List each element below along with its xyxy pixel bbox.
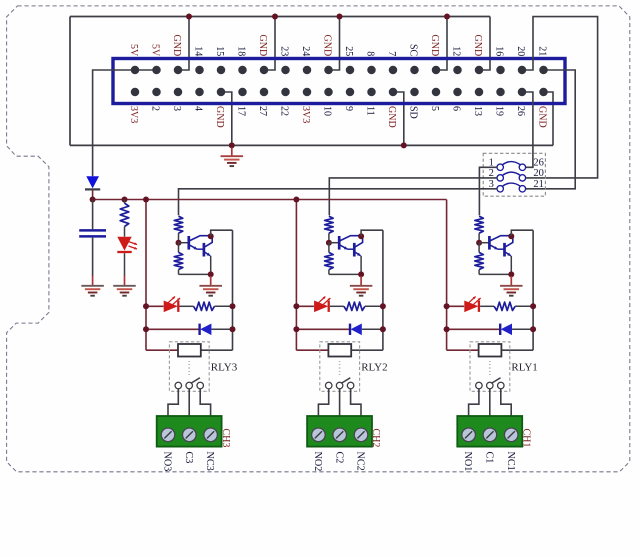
wire emitter Q1 [510,256,512,275]
svg-text:CH2: CH2 [370,429,381,448]
svg-text:RLY1: RLY1 [511,362,537,374]
svg-text:C2: C2 [333,452,344,464]
node base Q2 [326,240,332,246]
svg-text:20: 20 [533,168,544,179]
pin 1 [131,66,140,75]
junction rail resistor RLY1 [530,303,536,309]
wire GND bus top [70,16,490,18]
wire contact NC3 [200,389,210,417]
terminal screw CH3 [183,428,197,442]
pin 40 [539,88,548,97]
jumper pin 2 left [497,175,503,181]
svg-text:GND: GND [171,35,182,57]
terminal block CH3 [157,416,222,447]
pin 12 [238,88,247,97]
pin 32 [453,88,462,97]
wire flyback D3 to rail [211,328,232,330]
pin 34 [475,88,484,97]
svg-text:21: 21 [536,46,547,56]
svg-text:5V: 5V [128,44,139,57]
resistor R8 power LED [124,200,126,204]
terminal screw CH1 [483,428,497,442]
pin 11 [238,66,247,75]
wire rail to flyback D1 [447,328,500,330]
junction rail flyback left RLY2 [293,326,299,332]
relay RLY2 actuator link [339,361,341,375]
svg-text:21: 21 [533,179,544,190]
svg-text:NO1: NO1 [462,452,473,472]
wire emitter Q3 [210,256,212,275]
svg-text:4: 4 [192,106,203,111]
svg-text:25: 25 [343,46,354,56]
wire GND bus bottom [70,144,553,146]
relay RLY2 outline [320,342,360,392]
LED D5 power indicator [117,237,131,251]
wire flyback D1 to rail [512,328,533,330]
pin 4 [152,88,161,97]
junction bus rail RLY3 [143,197,149,203]
pin 5 [174,66,183,75]
capacitor C1 [92,200,94,230]
pin 2 [131,88,140,97]
pin 21 [346,66,355,75]
terminal block CH2 [307,416,372,447]
junction bus rail RLY2 [293,197,299,203]
svg-text:CH3: CH3 [220,429,231,448]
wire rail left RLY1 [446,200,448,351]
relay RLY3 coil [178,344,201,357]
jumper shunt row 1 [502,162,520,165]
svg-text:GND: GND [429,35,440,57]
wire flyback D2 to rail [362,328,383,330]
wire rail right RLY2 [382,230,384,350]
pin 24 [367,88,376,97]
resistor base lower Q1 [478,243,480,253]
svg-text:20: 20 [515,46,526,56]
wire resistor R1 to rail [515,305,533,307]
ground emitter Q2 [360,276,362,286]
transistor Q3 darlington [179,242,189,244]
svg-text:3V3: 3V3 [128,106,139,123]
wire contact C1 [489,389,491,417]
diode D2 flyback [349,324,351,335]
svg-text:NO2: NO2 [312,452,323,472]
wire jumper pin2 to Q2 base resistor [329,178,497,215]
pin 30 [432,88,441,97]
terminal screw CH1 [462,428,476,442]
svg-text:GND: GND [386,106,397,128]
wire GND pin top col7 to bus [264,17,275,71]
node emitter Q1 [508,271,514,277]
junction rail LED RLY2 [293,303,299,309]
wire emitter return Q1 [479,273,511,275]
pin 31 [453,66,462,75]
wire rail to flyback D3 [146,328,199,330]
pin 15 [281,66,290,75]
pin 37 [518,66,527,75]
jumper block J2 [483,153,545,196]
pin 36 [496,88,505,97]
wire collector Q2 to rail [361,230,383,236]
terminal screw CH1 [504,428,518,442]
terminal screw CH3 [204,428,218,442]
pin 14 [260,88,269,97]
svg-text:15: 15 [214,46,225,56]
junction rail flyback left RLY1 [444,326,450,332]
wire pin20 to jumper [522,17,598,178]
resistor R3 series [194,302,215,310]
wire rail to LED D2 [296,305,314,307]
svg-text:GND: GND [214,106,225,128]
relay RLY2 coil [328,344,351,357]
junction rail resistor RLY3 [230,303,236,309]
junction bus at C1 [122,197,128,203]
svg-text:3: 3 [171,106,182,111]
terminal screw CH2 [333,428,347,442]
svg-text:NO3: NO3 [162,452,173,472]
relay RLY1 contacts [476,382,483,389]
LED D3 indicator [164,301,178,313]
svg-text:7: 7 [386,51,397,56]
wire diode to bus [92,191,94,200]
svg-text:18: 18 [235,46,246,56]
wire GND pin bottom col13 to bus [393,92,404,145]
node base Q1 [476,240,482,246]
relay RLY1 coil [479,344,502,357]
diode D3 flyback [198,324,200,335]
junction on GND bus top [272,14,278,20]
svg-text:GND: GND [536,106,547,128]
resistor base lower Q2 [328,243,330,253]
resistor R2 series [344,302,365,310]
relay RLY1 actuator link [489,361,491,375]
svg-text:GND: GND [257,35,268,57]
wire GND pin bottom col5 to bus [221,92,232,145]
svg-text:GND: GND [321,35,332,57]
relay RLY3 outline [169,342,209,392]
pin 20 [324,88,333,97]
terminal screw CH2 [312,428,326,442]
wire GND pin bottom col20 to bus [544,92,554,145]
wire emitter return Q3 [179,273,211,275]
svg-text:2: 2 [149,106,160,111]
wire GND pin top col15 to bus [436,17,447,71]
wire rail to LED D1 [447,305,465,307]
svg-text:C1: C1 [484,452,495,464]
svg-text:8: 8 [364,51,375,56]
junction rail LED RLY1 [444,303,450,309]
svg-text:SC: SC [407,44,418,57]
svg-text:RLY2: RLY2 [361,362,387,374]
svg-text:26: 26 [533,158,544,169]
wire GND bus left [69,17,71,146]
node emitter Q2 [358,271,364,277]
svg-text:NC3: NC3 [204,452,215,471]
jumper shunt row 2 [502,172,520,175]
jumper pin 21 right [519,186,525,192]
wire GND pin top col10 to bus [329,17,340,71]
pin 8 [195,88,204,97]
wire resistor R3 to rail [215,305,233,307]
wire LED to resistor R3 [180,305,194,307]
svg-text:SD: SD [407,106,418,119]
transistor Q2 darlington [329,242,339,244]
resistor R1 series [494,302,515,310]
pin 6 [174,88,183,97]
wire rail left RLY2 [295,200,297,351]
wire contact NO3 [168,389,178,417]
ground emitter Q3 [210,276,212,286]
svg-text:10: 10 [321,106,332,116]
wire jumper pin1 to Q1 base resistor [479,167,497,215]
node base Q3 [176,240,182,246]
ground emitter Q1 [510,276,512,286]
svg-text:5: 5 [429,106,440,111]
svg-text:19: 19 [493,106,504,116]
LED D2 indicator [314,301,328,313]
pin 17 [303,66,312,75]
pin 29 [432,66,441,75]
connector J1 40-pin header [113,59,565,104]
resistor base upper Q3 [174,216,183,233]
wire pin26 to jumper [522,92,533,167]
pin 23 [367,66,376,75]
svg-text:27: 27 [257,106,268,116]
terminal block CH1 [457,416,522,447]
junction on GND bus top [186,14,192,20]
ground D5 [124,276,126,286]
LED D1 indicator [464,301,478,313]
relay RLY3 contacts [175,382,182,389]
junction rail flyback right RLY2 [380,326,386,332]
resistor base upper Q1 [475,216,484,233]
wire pin21 to jumper [526,70,575,189]
svg-text:22: 22 [278,106,289,116]
svg-text:NC2: NC2 [355,452,366,471]
wire contact NC1 [501,389,511,417]
pin 28 [410,88,419,97]
junction on GND bus bottom [229,142,235,148]
wire contact C3 [188,389,190,417]
node collector Q2 [358,233,364,239]
node collector Q3 [208,233,214,239]
wire rail to coil RLY2 [296,349,328,351]
svg-text:17: 17 [235,106,246,116]
pin 3 [152,66,161,75]
junction rail LED RLY3 [143,303,149,309]
junction rail flyback left RLY3 [143,326,149,332]
junction rail flyback right RLY1 [530,326,536,332]
pin 33 [475,66,484,75]
node 5V bus [93,199,447,201]
wire contact NC2 [351,389,361,417]
terminal screw CH2 [354,428,368,442]
diode D1 flyback [499,324,501,335]
wire emitter return Q2 [329,273,361,275]
wire jumper pin3 to Q3 base resistor [179,189,498,216]
jumper pin 1 left [497,164,503,170]
diode D4 reverse protection [86,176,99,188]
wire collector Q1 to rail [511,230,533,236]
pin 38 [518,88,527,97]
jumper shunt row 3 [502,183,520,186]
wire rail right RLY1 [532,230,534,350]
pin 7 [195,66,204,75]
svg-text:14: 14 [192,46,203,56]
svg-text:24: 24 [300,46,311,56]
terminal screw CH3 [161,428,175,442]
svg-text:23: 23 [278,46,289,56]
ground C1 [92,276,94,286]
junction rail flyback right RLY3 [230,326,236,332]
node emitter Q3 [208,271,214,277]
pin 35 [496,66,505,75]
wire LED to resistor R1 [480,305,494,307]
pin 25 [389,66,398,75]
pin 13 [260,66,269,75]
wire contact NO1 [469,389,479,417]
svg-text:CH1: CH1 [520,429,531,448]
pin 10 [217,88,226,97]
junction bus at D4 [90,197,96,203]
wire rail to coil RLY3 [146,349,178,351]
svg-text:12: 12 [450,46,461,56]
svg-text:C3: C3 [183,452,194,464]
svg-text:6: 6 [450,106,461,111]
wire rail to flyback D2 [296,328,349,330]
pin 39 [539,66,548,75]
svg-text:11: 11 [364,106,375,116]
wire contact C2 [339,389,341,417]
pin 9 [217,66,226,75]
svg-text:3V3: 3V3 [300,106,311,123]
junction rail resistor RLY2 [380,303,386,309]
junction on GND bus bottom [401,142,407,148]
pin 19 [324,66,333,75]
junction on GND bus top [337,14,343,20]
svg-text:GND: GND [472,35,483,57]
svg-text:26: 26 [515,106,526,116]
relay RLY3 actuator link [188,361,190,375]
pin 16 [281,88,290,97]
relay RLY1 outline [470,342,510,392]
pin 27 [410,66,419,75]
svg-text:9: 9 [343,106,354,111]
wire GND pin top col3 to bus [178,17,189,71]
wire rail to coil RLY1 [447,349,479,351]
node collector Q1 [508,233,514,239]
wire contact NO2 [318,389,328,417]
resistor base lower Q3 [178,243,180,253]
wire emitter Q2 [360,256,362,275]
pin 18 [303,88,312,97]
wire 5V pins to diode [93,70,157,176]
wire collector Q3 to rail [211,230,233,236]
wire resistor R2 to rail [365,305,383,307]
relay RLY2 contacts [325,382,332,389]
pin 26 [389,88,398,97]
wire rail right RLY3 [232,230,234,350]
svg-text:16: 16 [493,46,504,56]
jumper pin 3 left [497,186,503,192]
junction on GND bus top [444,14,450,20]
resistor base upper Q2 [325,216,334,233]
svg-text:13: 13 [472,106,483,116]
svg-text:5V: 5V [149,44,160,57]
pin 22 [346,88,355,97]
wire GND pin top col17 to bus [479,17,490,71]
jumper pin 26 right [519,164,525,170]
jumper pin 20 right [519,175,525,181]
wire rail left RLY3 [145,200,147,351]
svg-text:NC1: NC1 [505,452,516,471]
transistor Q1 darlington [479,242,489,244]
svg-text:RLY3: RLY3 [211,362,238,374]
wire LED to resistor R2 [330,305,344,307]
wire rail to LED D3 [146,305,164,307]
ground symbol at header [231,148,233,157]
